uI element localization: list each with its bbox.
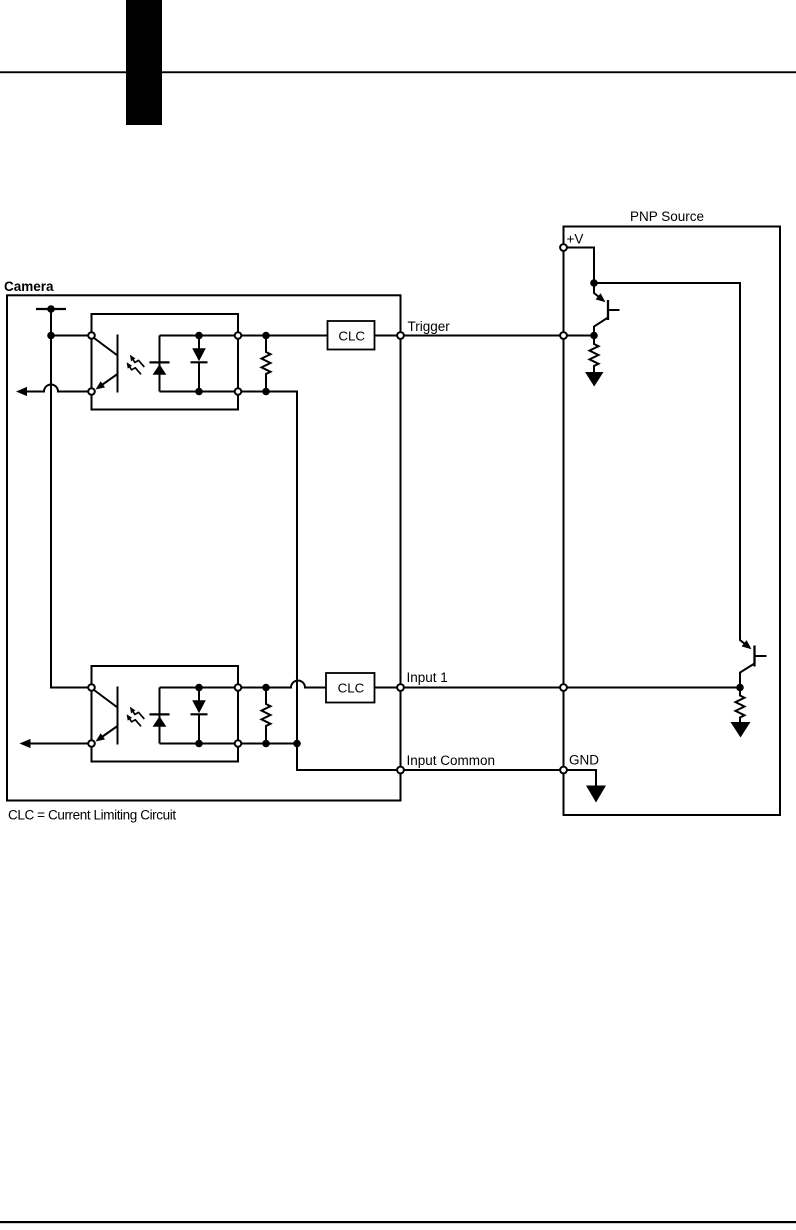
junction dot Q1 collector to trigger — [590, 332, 598, 340]
wire: Input Common line camera to PNP — [401, 769, 564, 771]
page header black bar — [126, 0, 162, 125]
arrowhead: U2 emitter out — [20, 739, 31, 748]
wire: +V rail across to Q2 — [594, 283, 740, 634]
junction dot resistor top — [262, 332, 270, 340]
LED of U2: triangle — [153, 716, 167, 727]
junction dot down-link joins bottom rail — [293, 740, 301, 748]
junction dot resistor top — [262, 684, 270, 692]
wire: CLC to camera edge — [375, 335, 401, 337]
resistor (camera input 1 channel) — [262, 688, 271, 744]
phototransistor of U2: emitter arrowhead — [96, 733, 106, 741]
terminal circle PNP GND — [560, 767, 567, 774]
arrowhead: U1 emitter out — [16, 387, 27, 396]
protection diode of U1: bottom lead — [198, 362, 200, 391]
protection diode of U1: top lead — [198, 336, 200, 349]
phototransistor of U1: emitter arrowhead — [96, 381, 106, 389]
wire: bus to U1 anode terminal — [51, 335, 92, 337]
phototransistor of U2: collector lead — [92, 689, 118, 708]
wire: U2 inner bottom rail — [160, 743, 239, 745]
wire: U1 top rail to CLC — [238, 335, 328, 337]
junction dot resistor bottom — [262, 388, 270, 396]
transistor Q2 collector lead — [740, 664, 755, 688]
light arrow 2 of U1 — [128, 365, 141, 375]
svg-text:CLC = Current Limiting Circuit: CLC = Current Limiting Circuit — [8, 808, 176, 823]
phototransistor of U2: base bar — [117, 687, 119, 745]
LED of U1: vertical lead — [159, 336, 161, 392]
transistor Q1 emitter lead — [594, 283, 602, 299]
junction dot Q2 collector to input 1 — [736, 684, 744, 692]
wire: CLC to camera edge (input 1) — [375, 687, 401, 689]
transistor Q1 base stub — [608, 309, 620, 311]
phototransistor of U1: collector lead — [92, 337, 118, 356]
terminal circle camera trigger — [397, 332, 404, 339]
optocoupler U1 box — [92, 314, 239, 410]
junction dot resistor bottom — [262, 740, 270, 748]
wire: U2 top rail to CLC with hop over down-link — [238, 681, 326, 688]
light arrow 1 head of U2 — [130, 707, 136, 713]
phototransistor of U2: emitter lead — [99, 726, 118, 739]
phototransistor of U1: base bar — [117, 335, 119, 393]
terminal circle U2 left top — [88, 684, 95, 691]
page top rule — [0, 71, 796, 73]
terminal circle camera input common — [397, 767, 404, 774]
optocoupler U2 box — [92, 666, 239, 762]
wire: GND circle to ground symbol — [564, 770, 597, 786]
protection diode of U2: bottom lead — [198, 714, 200, 743]
light arrow 2 head of U1 — [127, 362, 133, 368]
protection diode of U2: top lead — [198, 688, 200, 701]
svg-text:CLC: CLC — [338, 680, 365, 695]
junction dot bus to trigger branch — [47, 332, 55, 340]
resistor R2 (input 1 pulldown) — [736, 688, 745, 723]
wire: U2 emitter out arrow left — [31, 743, 92, 745]
transistor Q1 emitter arrowhead — [596, 293, 606, 302]
terminal circle PNP +V — [560, 244, 567, 251]
transistor Q1 collector lead — [594, 318, 608, 336]
protection diode of U2: cathode bar — [191, 713, 208, 715]
phototransistor of U1: emitter lead — [99, 374, 118, 387]
junction dot on bus stub — [47, 305, 55, 313]
LED of U2: vertical lead — [159, 688, 161, 744]
CLC box (trigger) — [328, 321, 375, 350]
svg-text:+V: +V — [567, 232, 584, 247]
wire: left bus vertical — [51, 309, 92, 688]
svg-text:GND: GND — [569, 753, 599, 768]
wire: U1 inner bottom rail — [160, 391, 239, 393]
protection diode of U1: cathode bar — [191, 361, 208, 363]
Camera enclosure box — [7, 295, 401, 800]
svg-text:CLC: CLC — [338, 328, 365, 343]
wire: U2 bottom rail to input common corner — [238, 743, 297, 745]
resistor (camera trigger channel) — [262, 336, 271, 392]
terminal circle U1 emitter left — [88, 388, 95, 395]
junction dot U1 diode top — [195, 332, 203, 340]
resistor R1 (trigger pulldown) — [590, 336, 599, 373]
wire: U1 emitter out with hop over bus, arrow left — [27, 385, 92, 392]
terminal circle U2 right top — [235, 684, 242, 691]
wire: U2 inner top rail — [160, 687, 239, 689]
PNP Source enclosure box — [564, 227, 781, 816]
node: left bus stub tick — [36, 308, 66, 310]
ground symbol at GND — [586, 786, 606, 803]
transistor Q2 emitter lead — [740, 634, 748, 646]
terminal circle camera input 1 — [397, 684, 404, 691]
ground symbol at R2 — [731, 722, 751, 738]
junction dot U2 diode top — [195, 684, 203, 692]
svg-text:Trigger: Trigger — [408, 319, 451, 334]
svg-text:Input Common: Input Common — [407, 753, 496, 768]
page bottom rule — [0, 1221, 796, 1223]
transistor Q2 emitter arrowhead — [742, 640, 752, 649]
terminal circle U2 left bottom — [88, 740, 95, 747]
terminal circle U1 right top — [235, 332, 242, 339]
junction dot +V rail — [590, 279, 598, 287]
transistor Q1 base bar — [607, 300, 609, 320]
svg-text:Input 1: Input 1 — [407, 670, 448, 685]
light arrow 1 of U1 — [131, 357, 144, 367]
wire: Trigger line camera to PNP — [401, 335, 595, 337]
terminal circle U1 right bottom — [235, 388, 242, 395]
wire: input common run — [297, 744, 401, 771]
terminal circle U1 anode left — [88, 332, 95, 339]
wire: Input 1 line camera to PNP — [401, 687, 564, 689]
light arrow 2 head of U2 — [127, 714, 133, 720]
light arrow 1 head of U1 — [130, 355, 136, 361]
ground symbol at R1 — [585, 372, 604, 387]
wire: +V feed to transistor Q1 — [564, 248, 595, 284]
junction dot U2 diode bottom — [195, 740, 203, 748]
terminal circle PNP trigger — [560, 332, 567, 339]
light arrow 2 of U2 — [128, 717, 141, 727]
wire: U1 bottom rail to down-link corner — [238, 392, 297, 744]
LED of U2: cathode bar — [150, 713, 170, 715]
light arrow 1 of U2 — [131, 709, 144, 719]
wire: Input 1 into PNP box to Q2 — [564, 687, 741, 689]
terminal circle PNP input 1 — [560, 684, 567, 691]
svg-text:Camera: Camera — [4, 279, 54, 294]
transistor Q2 base stub — [755, 655, 767, 657]
wire: U1 inner top rail — [160, 335, 239, 337]
svg-text:PNP Source: PNP Source — [630, 209, 704, 224]
LED of U1: triangle — [153, 364, 167, 375]
terminal circle U2 right bottom — [235, 740, 242, 747]
protection diode of U2: triangle — [192, 700, 206, 713]
protection diode of U1: triangle — [192, 348, 206, 361]
CLC box (input 1) — [326, 673, 375, 703]
LED of U1: cathode bar — [150, 361, 170, 363]
junction dot U1 diode bottom — [195, 388, 203, 396]
transistor Q2 base bar — [753, 646, 755, 667]
